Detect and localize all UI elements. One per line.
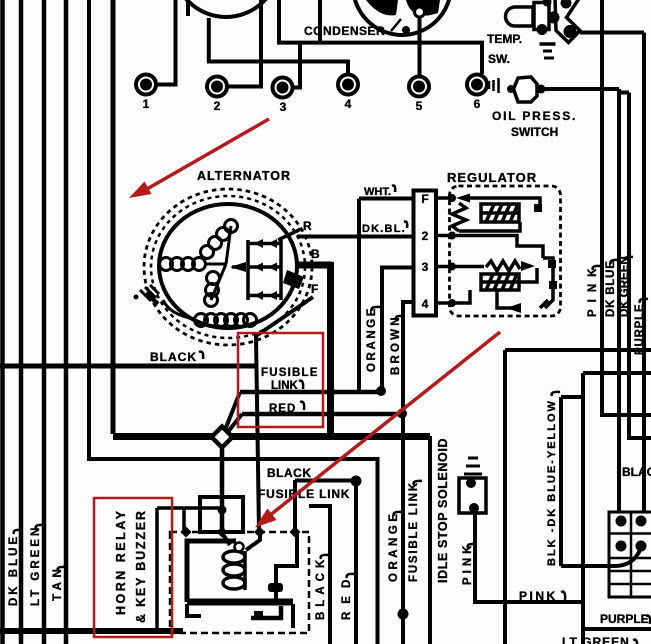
svg-text:2: 2	[422, 229, 429, 243]
svg-text:BROWN: BROWN	[390, 314, 402, 375]
svg-text:ALTERNATOR: ALTERNATOR	[197, 169, 291, 183]
svg-text:PURPLE: PURPLE	[634, 304, 646, 355]
svg-text:SWITCH: SWITCH	[511, 125, 558, 139]
svg-text:RED: RED	[269, 403, 296, 415]
svg-text:WHT.: WHT.	[364, 186, 391, 198]
svg-text:SW.: SW.	[488, 52, 510, 66]
svg-text:CONDENSER: CONDENSER	[304, 24, 385, 38]
svg-text:FUSIBLE: FUSIBLE	[261, 367, 319, 379]
svg-text:DK BLUE: DK BLUE	[8, 534, 20, 606]
svg-text:DK.BL.: DK.BL.	[362, 223, 406, 235]
svg-text:PINK: PINK	[462, 542, 474, 585]
svg-text:BLACK: BLACK	[267, 466, 312, 480]
svg-text:RED: RED	[341, 572, 353, 620]
svg-text:LINK: LINK	[271, 380, 299, 392]
svg-text:2: 2	[214, 99, 221, 113]
svg-text:BLACK: BLACK	[150, 350, 197, 364]
svg-text:OIL PRESS.: OIL PRESS.	[492, 109, 577, 123]
svg-text:ORANGE: ORANGE	[366, 306, 378, 372]
svg-text:PINK: PINK	[519, 589, 558, 603]
svg-text:BLK -DK BLUE-YELLOW: BLK -DK BLUE-YELLOW	[546, 399, 558, 566]
svg-text:4: 4	[422, 297, 429, 311]
svg-text:F: F	[421, 192, 428, 206]
svg-text:F: F	[311, 282, 318, 296]
svg-text:B: B	[311, 247, 320, 261]
svg-text:R: R	[303, 219, 312, 233]
svg-text:LT GREEN: LT GREEN	[562, 635, 630, 644]
svg-text:HORN RELAY: HORN RELAY	[114, 509, 128, 616]
svg-text:1: 1	[143, 97, 150, 111]
svg-text:3: 3	[280, 100, 287, 114]
svg-text:DK BLUE: DK BLUE	[605, 260, 617, 317]
svg-text:BLACK: BLACK	[622, 465, 651, 479]
svg-text:PURPLE: PURPLE	[600, 612, 649, 626]
svg-text:DK GREEN: DK GREEN	[619, 256, 631, 317]
svg-text:6: 6	[474, 97, 481, 111]
svg-text:& KEY BUZZER: & KEY BUZZER	[134, 509, 148, 623]
svg-text:IDLE STOP SOLENOID: IDLE STOP SOLENOID	[436, 438, 450, 583]
svg-text:4: 4	[345, 97, 352, 111]
svg-text:FUSIBLE LINK: FUSIBLE LINK	[408, 481, 420, 582]
svg-text:3: 3	[422, 260, 429, 274]
svg-text:REGULATOR: REGULATOR	[447, 170, 537, 185]
svg-text:5: 5	[416, 99, 423, 113]
svg-text:LT GREEN: LT GREEN	[30, 525, 42, 606]
svg-text:ORANGE: ORANGE	[388, 511, 400, 582]
svg-text:BLACK: BLACK	[315, 555, 327, 620]
svg-text:TEMP.: TEMP.	[487, 32, 522, 46]
